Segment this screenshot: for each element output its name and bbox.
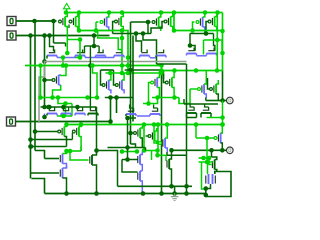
- junction n65a: [38, 63, 43, 68]
- junction n65r: [159, 63, 164, 68]
- wire q30 gate: [35, 131, 58, 133]
- wire gate36: [45, 158, 60, 160]
- junction v122a: [120, 36, 125, 41]
- wire net1: [79, 13, 128, 74]
- junction b40a: [215, 38, 220, 43]
- wire q9 hook: [50, 36, 54, 52]
- wire q35 drain path: [167, 152, 187, 155]
- wire q11 gate hook: [98, 46, 100, 53]
- wire q21 drain ext: [205, 98, 207, 101]
- wire v96b: [96, 107, 98, 151]
- n-transistor Q23: [47, 108, 57, 116]
- wire q44 riser: [206, 138, 208, 162]
- junction b124 x66.5: [64, 122, 69, 127]
- wire v162: [161, 66, 163, 71]
- wire right drop dark: [222, 71, 224, 101]
- junction q30g: [33, 129, 38, 134]
- junction gB x66.5: [64, 191, 69, 196]
- junction n73d: [159, 68, 164, 73]
- junction v122b: [120, 63, 125, 68]
- p-transistor Q17: [102, 73, 111, 94]
- wire v72: [71, 104, 73, 117]
- wire bright57seg: [76, 57, 81, 59]
- junction n97L1: [38, 95, 43, 100]
- wire busB: [30, 36, 32, 179]
- junction dl2: [204, 193, 209, 198]
- wire n151c: [144, 150, 160, 152]
- p-transistor Q20: [165, 71, 174, 98]
- p-transistor Q36b: [148, 128, 157, 144]
- wire q45 src: [61, 66, 66, 76]
- junction dl1: [204, 186, 209, 191]
- wire q43 src: [211, 150, 213, 157]
- junction v126t: [125, 116, 130, 121]
- wire jog92: [93, 66, 98, 98]
- junction n1c: [120, 28, 125, 33]
- junction VDD rail x109: [107, 10, 112, 15]
- wire v217: [216, 13, 218, 71]
- n-transistor Q11: [96, 50, 106, 58]
- junction q15g: [188, 43, 193, 48]
- p-transistor Q34b: [134, 126, 143, 142]
- wire busA: [34, 21, 36, 151]
- junction n151b1: [120, 149, 125, 154]
- wire VDD rail: [66, 12, 223, 14]
- junction n151a2: [68, 149, 73, 154]
- wire q41 gate stub: [165, 155, 167, 161]
- junction gA3: [184, 184, 189, 189]
- junction n146a: [29, 144, 34, 149]
- wire v110: [110, 98, 112, 122]
- wire n151a: [67, 150, 82, 152]
- p-transistor Q4: [115, 13, 124, 31]
- p-transistor Q3: [100, 13, 109, 32]
- junction n73L1: [108, 71, 113, 76]
- junction Qb2: [209, 148, 214, 153]
- n-transistor Q9: [47, 50, 57, 59]
- p-transistor Q22: [210, 80, 219, 101]
- wire v116: [116, 98, 118, 114]
- wire net146d: [31, 146, 67, 148]
- junction gB x96.5: [94, 191, 99, 196]
- junction n97a: [155, 95, 160, 100]
- junction v222a: [220, 115, 225, 120]
- wire net70a: [101, 69, 114, 71]
- wire netd33: [113, 33, 151, 35]
- junction n97L2: [50, 95, 55, 100]
- p-transistor Q45: [52, 75, 61, 85]
- n-transistor Q16: [207, 48, 217, 56]
- wire q23 leg ext: [44, 114, 46, 118]
- wire q20 hook: [163, 71, 165, 80]
- wire v66b: [66, 149, 68, 151]
- wire q35 gate: [154, 125, 159, 144]
- junction n97L3: [56, 95, 61, 100]
- ground: [171, 194, 179, 201]
- wire q20 gate: [164, 74, 166, 83]
- wire gate37: [31, 172, 60, 174]
- wire net147 hook: [145, 148, 147, 151]
- junction busB146: [28, 144, 33, 149]
- junction n151c2: [155, 148, 160, 153]
- junction VDD rail x174: [172, 10, 177, 15]
- wire gate43: [209, 158, 212, 165]
- wire v161d: [161, 71, 163, 194]
- wire Q5 gate: [131, 21, 151, 23]
- junction n97d1: [108, 95, 113, 100]
- junction n73L2: [126, 71, 131, 76]
- wire q31 stub: [71, 133, 73, 140]
- wire Q6 gate feed: [151, 22, 164, 34]
- junction gA2: [169, 184, 174, 189]
- input pin C: [7, 117, 16, 126]
- wire bright124: [67, 124, 223, 126]
- wire b116: [57, 115, 72, 117]
- wire q34b drain: [141, 142, 143, 148]
- junction VDD rail x122: [120, 10, 125, 15]
- junction jog92: [90, 63, 95, 68]
- wire gray L: [39, 62, 187, 124]
- n-transistor Q38 stack top: [138, 152, 143, 172]
- wire out1 net: [206, 100, 219, 102]
- wire b40: [204, 39, 223, 41]
- junction n97d2: [114, 95, 119, 100]
- wire v94: [93, 36, 95, 47]
- junction n150b: [94, 148, 99, 153]
- wire net1b: [174, 13, 193, 31]
- wire b124 r158: [157, 125, 159, 151]
- wire netd33R: [190, 33, 214, 35]
- junction A1: [32, 19, 37, 24]
- junction n1a: [77, 28, 82, 33]
- junction q44g1: [205, 136, 210, 141]
- p-transistor Q21: [198, 71, 207, 99]
- wire Q7 riser: [193, 22, 195, 31]
- wire blue57a: [57, 57, 76, 59]
- wire VDD right drop bright: [222, 13, 224, 71]
- wire blue117: [137, 115, 150, 117]
- wire tg top: [199, 161, 214, 163]
- junction h2: [61, 105, 66, 110]
- junction n73L3: [159, 71, 164, 76]
- wire net158r: [199, 157, 210, 159]
- power VDD supply: [64, 3, 70, 12]
- junction gB x143: [141, 191, 146, 196]
- junction B1: [28, 33, 33, 38]
- wire n114 bar: [184, 103, 218, 105]
- wire Q3 gate riser: [95, 22, 97, 31]
- wire v122: [121, 31, 123, 74]
- junction busC117: [42, 115, 47, 120]
- junction q44g2: [194, 122, 199, 127]
- junction v110c: [108, 119, 113, 124]
- junction b124 x167: [165, 122, 170, 127]
- wire b40 drop1: [203, 40, 205, 55]
- wire q45 gate: [45, 79, 53, 81]
- junction h3: [75, 105, 80, 110]
- wire q18 gate: [114, 70, 116, 85]
- p-transistor Q18: [115, 73, 124, 94]
- wire q15 hook: [190, 46, 195, 51]
- wire gate stack top: [122, 159, 138, 161]
- junction q45s: [64, 63, 69, 68]
- wire q5g drop: [147, 22, 149, 34]
- wire net44: [54, 42, 66, 44]
- wire net147: [108, 147, 146, 149]
- junction n1b: [94, 28, 99, 33]
- wire n97 z2: [179, 89, 190, 104]
- wire n118r: [187, 117, 197, 119]
- junction n107b: [46, 105, 51, 110]
- junction n73b: [215, 68, 220, 73]
- wire Q3 gate: [96, 21, 99, 23]
- wire bus130: [130, 22, 132, 144]
- junction b57: [61, 55, 66, 60]
- wire to output Q: [219, 100, 227, 102]
- junction h1: [47, 105, 52, 110]
- junction r158t: [156, 122, 161, 127]
- junction VDD rail x79: [77, 10, 82, 15]
- junction b124 x222.5: [220, 122, 225, 127]
- wire q16 feed: [214, 34, 215, 51]
- wire net65: [25, 65, 162, 67]
- junction n73a: [194, 68, 199, 73]
- n-transistor Q43: [212, 157, 217, 172]
- junction vdrop2: [220, 51, 225, 56]
- junction n107a: [42, 105, 47, 110]
- junction tg1: [205, 160, 210, 165]
- wire q10 gate hook: [83, 46, 84, 53]
- p-transistor Q30: [58, 125, 67, 147]
- wire gB v186: [186, 186, 188, 193]
- n-transistor Q23b: [61, 108, 71, 116]
- wire q19 gate: [149, 83, 151, 104]
- p-transistor Q35: [159, 125, 168, 153]
- wire net150d: [97, 151, 118, 187]
- wire q15 feed: [189, 34, 191, 46]
- junction busC61: [42, 59, 47, 64]
- transmission gate T1: [202, 162, 216, 189]
- wire net97R: [152, 97, 179, 99]
- wire b117 stub: [207, 117, 223, 119]
- wire bus133: [132, 36, 134, 122]
- junction n151b2: [135, 149, 140, 154]
- n-transistor Q12: [114, 50, 124, 58]
- wire gB v174: [174, 186, 176, 193]
- wire gndB left: [32, 179, 45, 194]
- p-transistor Q19: [151, 71, 160, 98]
- wire q24 hook: [76, 107, 78, 110]
- wire GND rail A: [118, 185, 193, 187]
- wire net118: [128, 117, 137, 119]
- wire q17 gate: [101, 70, 103, 85]
- junction gB186: [184, 191, 189, 196]
- junction n65c: [126, 63, 131, 68]
- wire net64: [157, 63, 187, 65]
- wire blue57d: [197, 55, 207, 57]
- p-transistor Q5: [152, 13, 161, 32]
- wire n151b: [122, 151, 137, 153]
- wire Q8 gate feed: [206, 22, 208, 34]
- input pin A: [7, 17, 16, 26]
- junction outQ: [220, 98, 225, 103]
- junction gB x161.5: [159, 191, 164, 196]
- input pin B: [7, 31, 16, 40]
- wire busA2: [53, 21, 55, 43]
- junction q44s: [220, 122, 225, 127]
- junction VDD rail x205: [203, 10, 208, 15]
- junction v122c: [120, 71, 125, 76]
- wire q31 gate line: [31, 139, 73, 141]
- wire v81: [80, 146, 82, 151]
- wire q44 gate v: [195, 125, 197, 139]
- wire blue57c: [150, 57, 156, 59]
- n-transistor Q36 stack top: [60, 152, 66, 169]
- wire net46: [85, 45, 100, 47]
- n-transistor Q27: [150, 105, 160, 117]
- junction n1d: [126, 55, 131, 60]
- wire q23 hook: [48, 107, 50, 110]
- wire q1 drain path: [67, 40, 80, 58]
- junction q9g: [47, 33, 52, 38]
- n-transistor Q14: [156, 50, 166, 58]
- junction v65c: [63, 101, 68, 106]
- wire n151c down: [151, 151, 153, 161]
- p-transistor Q2: [69, 13, 78, 31]
- junction q19g: [146, 101, 151, 106]
- n-transistor Q39 stack bottom: [138, 171, 143, 193]
- n-transistor Q40: [90, 150, 97, 194]
- junction n97L5: [95, 95, 100, 100]
- output pin Q: [227, 97, 234, 104]
- p-transistor Q7: [196, 13, 205, 36]
- junction B2: [42, 33, 47, 38]
- n-transistor Q13: [140, 50, 150, 58]
- p-transistor Q1: [59, 13, 68, 54]
- junction d33b: [141, 31, 146, 36]
- junction gB x174.6: [172, 191, 177, 196]
- p-transistor Q8: [208, 13, 217, 31]
- n-transistor Q25: [88, 108, 98, 116]
- junction q41g2: [155, 153, 160, 158]
- wire q25 hook: [89, 46, 91, 110]
- wire v65c: [65, 104, 67, 117]
- p-transistor Q6: [164, 13, 173, 31]
- junction q25h: [88, 63, 93, 68]
- n-transistor Q41: [167, 150, 172, 186]
- wire Q4 gate feed: [113, 22, 115, 34]
- n-transistor Q24: [75, 108, 85, 116]
- wire net97L: [41, 97, 98, 99]
- wire q44 gate: [196, 137, 214, 139]
- junction VDD rail x161: [159, 10, 164, 15]
- junction v94m: [92, 44, 97, 49]
- junction b116: [61, 114, 66, 119]
- wire pinA: [16, 20, 57, 22]
- wire q44 drain: [221, 143, 223, 150]
- wire n97L path: [58, 98, 72, 104]
- junction d33a: [134, 31, 139, 36]
- wire d33 drop1: [136, 34, 142, 53]
- junction VDD rail x66: [64, 10, 69, 15]
- wire n114 bar feed: [183, 99, 185, 104]
- junction vdrop1: [220, 29, 225, 34]
- junction q7g: [190, 28, 195, 33]
- junction gst: [125, 157, 130, 162]
- junction d33R: [204, 31, 209, 36]
- wire v186 up: [186, 64, 188, 186]
- junction b124 x144: [142, 122, 147, 127]
- junction n70b: [128, 68, 133, 73]
- n-transistor Q26: [126, 105, 136, 117]
- junction q1d1: [78, 37, 83, 42]
- wire net70b: [125, 69, 161, 71]
- junction Qb1: [169, 148, 174, 153]
- wire gate40: [70, 152, 89, 161]
- wire net107: [41, 106, 97, 108]
- junction r158b: [207, 156, 212, 161]
- wire gate stack elbow: [122, 160, 138, 173]
- junction q31g: [28, 137, 33, 142]
- wire q23b hook: [62, 107, 64, 110]
- wire b130 link: [131, 144, 136, 148]
- junction n65b: [61, 63, 66, 68]
- junction n97L4: [85, 95, 90, 100]
- junction VDD rail x217.5: [215, 10, 220, 15]
- wire pinC: [16, 121, 110, 123]
- junction n151c1: [142, 148, 147, 153]
- n-transistor Q10: [75, 50, 85, 58]
- junction r158a: [201, 156, 206, 161]
- wire brightv63: [62, 58, 64, 66]
- wire n155 bright seg: [158, 154, 167, 156]
- junction q5g: [146, 20, 151, 25]
- output pin Qb: [227, 147, 234, 154]
- wire v405: [40, 66, 42, 98]
- wire net73: [162, 70, 224, 72]
- wire v222 low: [222, 101, 224, 125]
- wire v126: [127, 118, 129, 160]
- wire q21 gate: [190, 88, 198, 90]
- wire GND rail B: [45, 193, 206, 195]
- junction b57x80: [78, 55, 83, 60]
- p-transistor Q44: [214, 133, 223, 143]
- junction n1e: [172, 28, 177, 33]
- wire Q2 gate stub: [68, 25, 70, 29]
- wire q34b gate: [132, 132, 134, 134]
- wire net44 stub: [65, 43, 67, 47]
- junction n147a: [125, 145, 130, 150]
- wire b40 drop2: [221, 40, 223, 53]
- wire dark loop: [206, 172, 231, 197]
- wire Qb line: [172, 149, 227, 151]
- wire net97D: [105, 97, 133, 99]
- wire q45 drain: [53, 85, 61, 98]
- wire q36b gate: [146, 135, 149, 137]
- n-transistor Q15: [187, 48, 197, 56]
- junction b124 x81: [79, 122, 84, 127]
- wire q44 src: [221, 125, 223, 134]
- junction q45g: [42, 78, 47, 83]
- junction q1d2: [65, 51, 70, 56]
- junction A2: [51, 19, 56, 24]
- wire n97 z1: [143, 98, 158, 104]
- junction q44d: [220, 148, 225, 153]
- wire q41 gate path: [157, 151, 159, 156]
- junction q3g: [94, 28, 99, 33]
- junction q34bg: [128, 131, 133, 136]
- wire q12 gate: [98, 31, 122, 53]
